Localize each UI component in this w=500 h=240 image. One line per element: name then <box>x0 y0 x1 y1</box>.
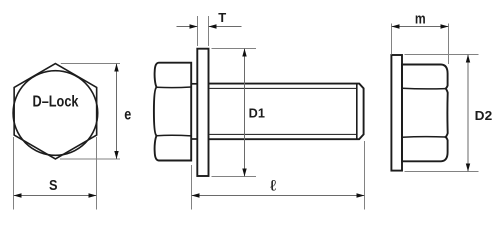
dimension S left extension line <box>13 137 15 210</box>
bolt head right side view outline <box>402 65 448 162</box>
neck lower line between head and washer <box>191 138 197 140</box>
dimension D1 bottom extension line <box>212 176 257 178</box>
dimension l line <box>192 195 365 197</box>
washer side view (right) <box>391 55 402 171</box>
svg-text:e: e <box>124 106 131 123</box>
dimension m line <box>392 26 449 28</box>
dimension D1 top extension line <box>212 48 257 50</box>
dimension D1 arrow down <box>242 169 246 177</box>
threaded shank outline <box>209 84 364 140</box>
svg-text:D1: D1 <box>249 107 265 121</box>
dimension e arrow up <box>114 64 118 72</box>
thread minor line bottom <box>210 133 357 135</box>
dimension S arrow right <box>89 193 97 197</box>
washer side view (middle) <box>197 49 208 176</box>
dimension l left extension line <box>191 165 193 210</box>
thread minor line top <box>210 87 357 89</box>
svg-text:ℓ: ℓ <box>269 177 277 194</box>
svg-text:S: S <box>49 177 58 194</box>
dimension e arrow down <box>114 151 118 159</box>
dimension m right extension line <box>448 24 450 65</box>
dimension D2 line <box>467 55 469 172</box>
dimension S right extension line <box>96 137 98 210</box>
dimension e top extension line <box>61 63 120 65</box>
dimension T left line and arrow <box>177 26 198 28</box>
dimension l right extension line <box>364 141 366 210</box>
dimension D1 arrow up <box>242 49 246 57</box>
svg-text:D2: D2 <box>475 109 493 123</box>
dimension S arrow left <box>14 193 22 197</box>
dimension D2 top extension line <box>405 54 479 56</box>
svg-text:T: T <box>218 10 226 25</box>
right head bottom facet line <box>402 136 446 139</box>
dimension T right extension line <box>208 16 210 46</box>
dimension l arrow left <box>192 193 200 197</box>
dimension m left extension line <box>391 24 393 55</box>
bolt head side view top facet line <box>157 86 192 89</box>
dimension e line <box>116 64 118 160</box>
dimension D2 bottom extension line <box>405 171 479 173</box>
svg-text:D–Lock: D–Lock <box>33 94 79 111</box>
neck upper line between head and washer <box>191 83 197 85</box>
bolt head side view bottom facet line <box>157 134 192 137</box>
svg-text:m: m <box>415 12 426 28</box>
dimension T right line and arrow <box>209 26 242 28</box>
label l (script ell) <box>269 177 277 194</box>
right head top facet line <box>402 87 446 90</box>
inscribed circle of hex head <box>13 71 98 156</box>
bolt head side view outline <box>154 63 191 161</box>
dimension m arrow left <box>392 24 400 28</box>
dimension T left extension line <box>197 16 199 46</box>
dimension m arrow right <box>441 24 449 28</box>
dimension D1 line <box>244 49 246 177</box>
dimension D2 arrow up <box>466 55 470 63</box>
dimension S line <box>14 195 97 197</box>
thread runout line at shank end <box>356 84 358 140</box>
dimension e bottom extension line <box>60 158 120 160</box>
dimension l arrow right <box>357 193 365 197</box>
hex head top view outline <box>14 64 97 159</box>
dimension D2 arrow down <box>466 164 470 172</box>
